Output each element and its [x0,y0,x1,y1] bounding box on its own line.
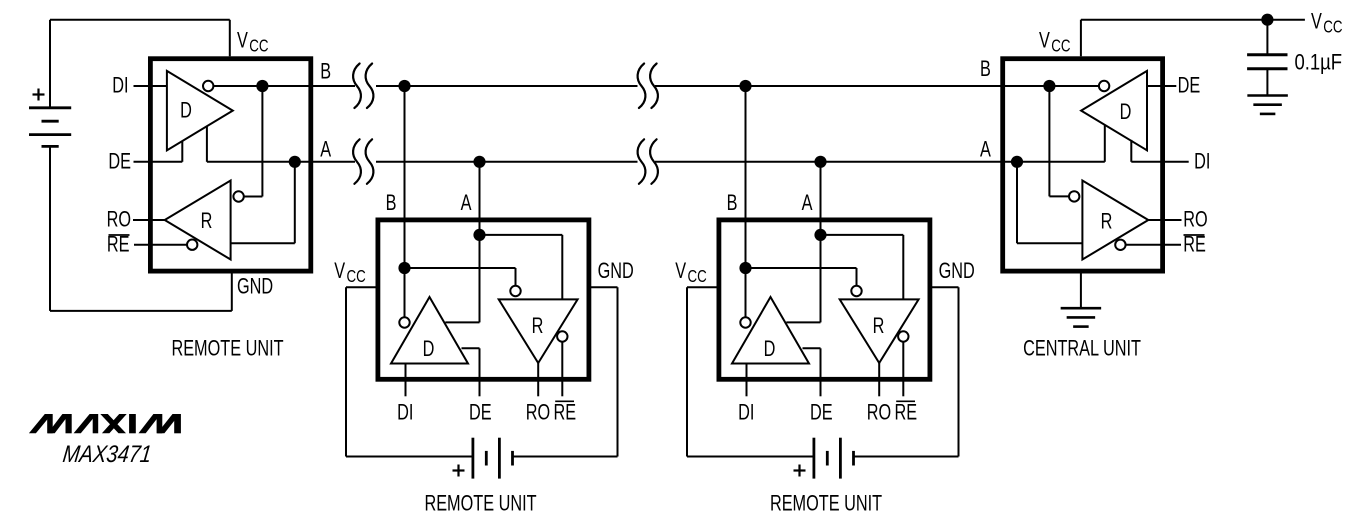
svg-text:RO: RO [526,400,550,425]
svg-text:B: B [727,191,738,216]
svg-text:V: V [1311,9,1322,34]
svg-text:DE: DE [1178,73,1201,98]
svg-text:V: V [237,28,248,53]
svg-text:B: B [980,57,991,82]
svg-text:A: A [802,191,813,216]
svg-text:RE: RE [894,400,917,425]
svg-text:DE: DE [810,400,833,425]
svg-text:DI: DI [112,73,128,98]
svg-text:RO: RO [107,207,131,232]
svg-text:DI: DI [738,400,754,425]
svg-text:CC: CC [347,267,366,286]
svg-text:CC: CC [1323,18,1342,37]
svg-text:RE: RE [553,400,576,425]
svg-text:CC: CC [249,37,268,56]
svg-text:REMOTE UNIT: REMOTE UNIT [770,491,882,516]
svg-text:GND: GND [939,259,975,284]
svg-text:MAX3471: MAX3471 [61,440,153,467]
svg-text:B: B [386,191,397,216]
svg-text:RE: RE [107,232,130,257]
svg-text:RO: RO [867,400,891,425]
svg-text:R: R [1101,209,1113,234]
svg-text:CC: CC [1051,37,1070,56]
svg-text:GND: GND [598,259,634,284]
svg-text:R: R [532,314,544,339]
svg-text:GND: GND [237,274,273,299]
svg-text:D: D [423,337,435,362]
svg-text:DI: DI [1194,149,1210,174]
svg-text:REMOTE UNIT: REMOTE UNIT [424,491,536,516]
svg-text:V: V [1039,28,1050,53]
svg-text:CENTRAL UNIT: CENTRAL UNIT [1023,336,1141,361]
svg-text:DE: DE [469,400,492,425]
svg-text:B: B [320,59,331,84]
svg-text:DI: DI [397,400,413,425]
svg-text:A: A [461,191,472,216]
svg-text:R: R [201,209,213,234]
svg-text:RO: RO [1183,207,1207,232]
svg-text:A: A [980,137,991,162]
svg-text:A: A [320,137,331,162]
svg-text:RE: RE [1183,232,1206,257]
svg-text:D: D [764,337,776,362]
svg-text:0.1µF: 0.1µF [1295,51,1343,75]
svg-text:D: D [180,98,192,123]
svg-text:DE: DE [108,149,131,174]
svg-text:V: V [675,259,686,284]
svg-text:V: V [334,259,345,284]
svg-text:R: R [873,314,885,339]
svg-text:D: D [1120,100,1132,125]
svg-text:REMOTE UNIT: REMOTE UNIT [171,336,283,361]
svg-text:CC: CC [688,267,707,286]
